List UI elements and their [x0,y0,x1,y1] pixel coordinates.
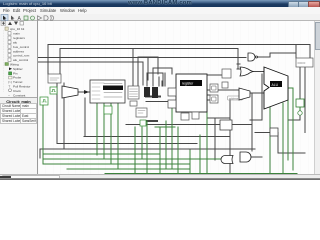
wire right mid [207,100,230,118]
wire gate2 out [251,156,262,158]
wire v305 [255,67,305,153]
wire green v283 [282,103,284,174]
wire rom left drop [84,98,230,137]
box U14 [222,69,231,78]
splitter arrow A1 [84,90,89,94]
wire v262 [250,74,262,120]
svg-text:registers: registers [13,36,25,40]
svg-text:Pin: Pin [13,71,18,75]
wire bus 3 [38,57,246,59]
wire green v160 [159,127,161,174]
toolbar [0,14,320,22]
or gate G3 [240,67,253,76]
svg-text:Wiring: Wiring [10,63,19,67]
wire green bottom bus 5 [105,173,297,175]
clock CLK2 [50,87,57,94]
wire green v43 [42,105,44,164]
mux M1 [62,86,78,98]
gate G2 [168,100,176,108]
svg-text:alu: alu [13,41,17,45]
wire nand out [256,53,296,57]
svg-text:bus_control: bus_control [13,45,29,49]
wire bottom v238 [237,65,239,67]
counter box U1 [48,74,61,83]
register subcircuit U6 [176,74,207,112]
wire left vertical 2 [40,83,255,158]
svg-text:address: address [13,49,24,53]
ROM U2 [90,80,125,103]
wire bottom v215 [214,118,216,160]
menu bar [0,7,320,15]
wire cluster feed 2 [147,73,163,86]
svg-text:T: T [8,85,10,89]
wire cluster feed 3 [153,68,172,86]
explorer mini toolbar [0,20,37,27]
wire green v288 [287,88,289,160]
svg-text:register: register [182,82,194,86]
ALU U10 [264,67,288,109]
gate G1 [168,88,176,96]
wire cluster extra verticals [159,73,165,86]
splitter S1 [144,87,150,97]
wire reg top right [195,74,222,76]
wire green v147 [146,121,148,174]
wire reg right stubs [207,90,239,100]
svg-text:Probe: Probe [13,76,22,80]
tunnel T1 [228,96,245,101]
splitter S2 [152,87,158,98]
wire green bottom bus 3 [43,163,190,165]
canvas [38,21,314,174]
buffer gate G7 [240,152,251,162]
svg-text:(>): (>) [8,80,12,84]
svg-text:Clock: Clock [13,89,21,93]
scrollbars and bottom [314,21,320,174]
wire top bus 2 [60,49,238,75]
box U7 [210,84,218,92]
wire junction blob [146,120,157,122]
svg-text:ALU: ALU [272,83,279,87]
svg-text:Splitter: Splitter [13,67,23,71]
mux M2 [239,88,250,100]
svg-text:Tunnel: Tunnel [13,80,23,84]
wire bus 4 [38,62,143,85]
wire green bottom bus 1 [43,153,160,155]
svg-text:main: main [13,32,20,36]
small box U4 [130,101,137,106]
small box U5 [136,108,147,117]
wire green alu out [288,88,293,170]
wire green v207 [206,85,208,174]
wire green bottom bus 4 [67,168,190,170]
box U8 [210,95,218,103]
title bar [0,0,320,7]
box U13 [220,120,232,130]
wire green v142 [141,127,143,159]
wire long mid bus [126,124,252,126]
wire mux1 out [78,91,90,93]
wire cluster h80 [146,101,172,103]
instr box U3 [128,86,139,99]
box U9 [222,82,228,88]
wire v255 [251,93,253,151]
wire green v135 [134,127,136,174]
wire branch x148 [147,58,149,81]
probe P1 [104,106,112,114]
wire green v166 [165,121,167,169]
wire v300 [288,67,300,120]
wire green bottom bus 2 [43,158,222,160]
wire green v172 [171,103,173,169]
wire left verticals down [57,83,197,144]
wire cluster feed 1 [138,57,158,86]
wire mux2 out [250,92,264,94]
wire bottom v230 [229,100,231,174]
wire top right drop [296,45,310,59]
wire and2 out [253,71,264,73]
wire green v270 [269,88,271,174]
wire branch x133 [132,49,134,89]
probe P3 [181,113,189,120]
wire rom pin greens [97,103,118,168]
wire junction blob 2 [146,96,160,98]
box U12 [270,128,278,136]
left panel [0,21,38,174]
nand gate G4 [248,53,258,61]
svg-text:address: address [229,97,239,101]
svg-text:control_rom: control_rom [13,54,30,58]
wire or out [237,64,240,69]
clock CLK1 [40,97,48,105]
svg-text:cpu_16 bit: cpu_16 bit [10,27,24,31]
not gate west G6 [221,156,233,164]
wire green v190 [189,150,191,174]
counter U11 [296,58,313,67]
wire top bus 1 [48,45,310,75]
svg-text:alu_control: alu_control [13,58,28,62]
wire green v200 [199,135,201,174]
wire green v178 [177,127,179,174]
svg-text:00000: 00000 [298,61,306,65]
probe P2 [140,120,146,126]
svg-text:Pull Resistor: Pull Resistor [13,85,30,89]
probe P6 [298,111,302,115]
probe P4 [192,112,199,119]
wire green reg mid [155,126,175,128]
pin out P5 [296,99,304,107]
wire green pin right drop [299,107,301,111]
